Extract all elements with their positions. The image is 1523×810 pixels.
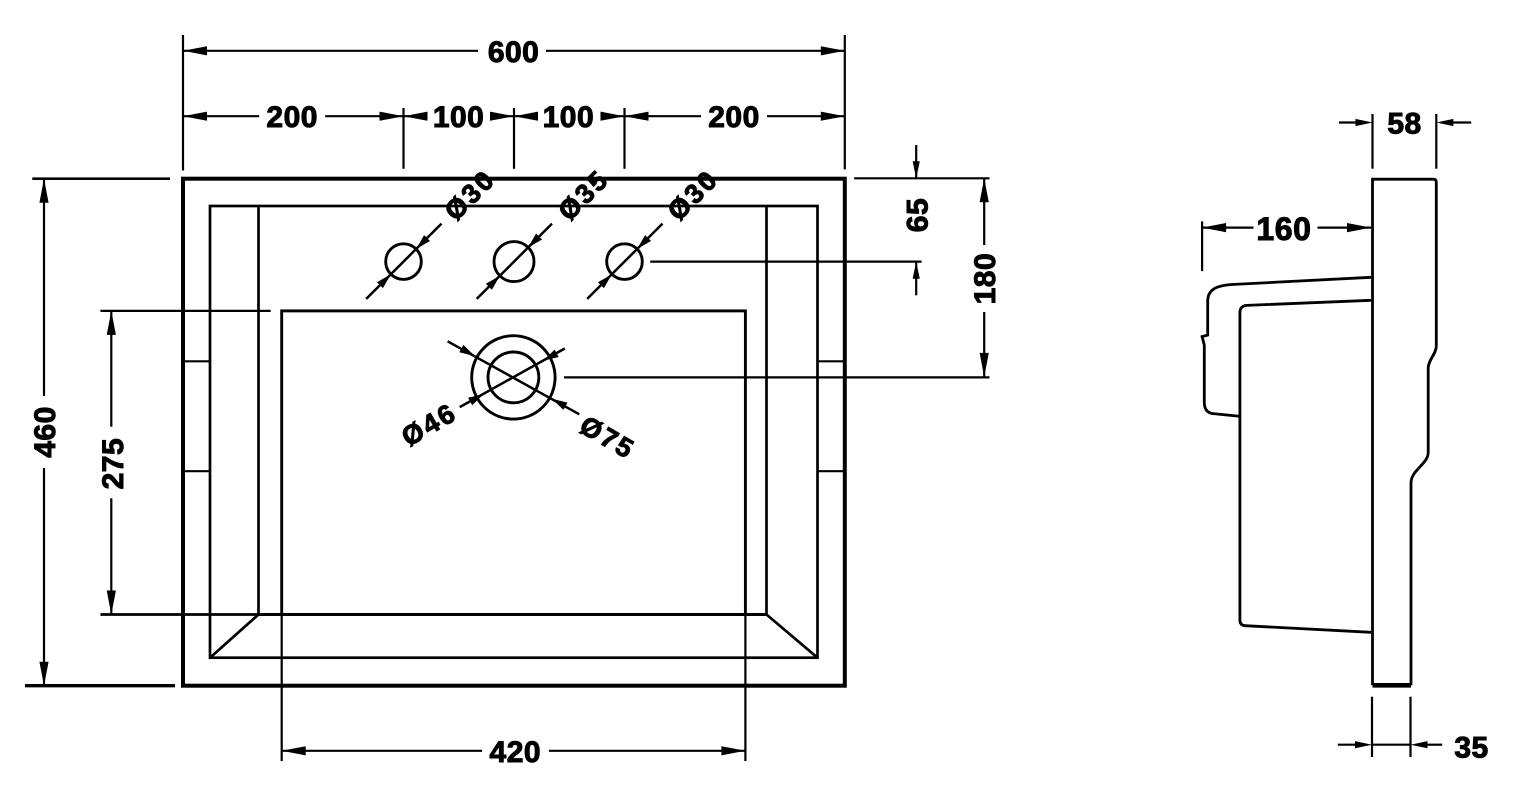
svg-text:Ø46: Ø46 <box>397 397 463 452</box>
svg-text:Ø35: Ø35 <box>552 164 615 227</box>
svg-text:200: 200 <box>708 101 760 134</box>
svg-text:200: 200 <box>266 101 318 134</box>
svg-text:600: 600 <box>488 36 540 69</box>
svg-text:65: 65 <box>901 198 934 232</box>
svg-text:Ø30: Ø30 <box>439 164 502 227</box>
svg-text:460: 460 <box>29 406 62 458</box>
svg-text:180: 180 <box>969 253 1002 305</box>
svg-text:420: 420 <box>490 736 542 769</box>
svg-text:Ø30: Ø30 <box>662 164 725 227</box>
svg-text:35: 35 <box>1454 732 1488 765</box>
svg-text:160: 160 <box>1256 211 1311 247</box>
svg-text:275: 275 <box>97 438 130 490</box>
svg-text:100: 100 <box>433 101 485 134</box>
svg-text:Ø75: Ø75 <box>575 410 641 465</box>
svg-text:100: 100 <box>543 101 595 134</box>
svg-text:58: 58 <box>1387 107 1421 140</box>
